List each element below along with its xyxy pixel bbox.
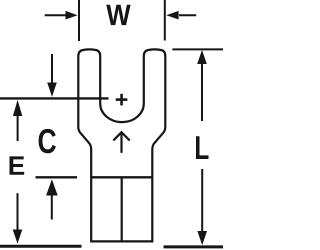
terminal outline xyxy=(78,49,165,241)
C down arrow stem xyxy=(51,54,53,84)
W dim line right xyxy=(179,14,196,16)
W extension line left xyxy=(78,0,80,41)
E up arrowhead xyxy=(13,100,22,116)
L down arrow stem xyxy=(201,169,203,232)
plus mark xyxy=(116,94,128,106)
E down arrow stem xyxy=(17,193,19,230)
C up arrowhead xyxy=(46,179,58,195)
barrel seam horizontal xyxy=(91,176,152,178)
E down arrowhead xyxy=(13,230,23,244)
L down arrowhead xyxy=(197,231,207,245)
label W xyxy=(106,5,130,25)
bottom extension line right xyxy=(164,245,224,248)
W extension line right xyxy=(164,0,166,41)
label L xyxy=(196,136,208,159)
W dim line left xyxy=(45,14,67,16)
L up arrowhead xyxy=(197,50,207,64)
label E xyxy=(10,156,25,174)
L extension line top xyxy=(172,48,223,50)
open up arrow inside barrel xyxy=(114,132,129,152)
C pointer line xyxy=(36,176,78,178)
barrel seam vertical xyxy=(121,178,123,241)
L up arrow stem xyxy=(201,63,203,121)
W left arrowhead xyxy=(66,11,78,20)
contact extension line xyxy=(0,97,109,99)
W right arrowhead xyxy=(166,11,178,20)
C down arrowhead xyxy=(47,83,57,97)
label C xyxy=(39,129,56,153)
C up arrow stem xyxy=(51,195,53,220)
E up arrow stem xyxy=(17,115,19,141)
bottom extension line left xyxy=(0,245,82,248)
